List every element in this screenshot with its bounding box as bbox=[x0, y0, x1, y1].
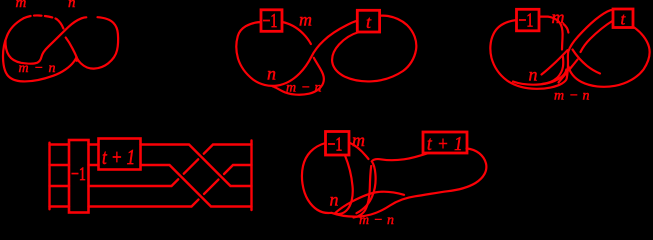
svg-text:−1: −1 bbox=[519, 9, 534, 31]
rung y3 bbox=[50, 185, 70, 187]
left closure bar bbox=[48, 143, 50, 210]
wire SW strand middle piece bbox=[569, 60, 578, 71]
box t bbox=[357, 10, 379, 32]
wire right loop top dash and right side and bottom back to pinch bbox=[77, 17, 119, 68]
rung y4 bbox=[50, 205, 70, 207]
wire m strand resumes below crossing, merges toward inner line bbox=[354, 166, 372, 218]
wire y2 from t+1 to descent to y4 right bbox=[141, 165, 252, 207]
wire m-band right edge resumes SE to oval bottom bbox=[573, 50, 601, 74]
wire m strand from box -1 right edge into crossing (under, gap) bbox=[349, 143, 369, 160]
wire right oval from box t right edge bbox=[569, 27, 650, 87]
svg-text:n: n bbox=[330, 190, 339, 210]
svg-text:t + 1: t + 1 bbox=[427, 133, 463, 156]
svg-text:−1: −1 bbox=[263, 10, 278, 32]
wire left loop sweep CCW from box -1 left, through bottom cusp, east along pill bottom, around cap to box t+1 right bbox=[302, 143, 486, 217]
box t+1 bbox=[423, 132, 467, 153]
wire m-n inner arc bbox=[513, 70, 566, 85]
wire strand a resumes to m-n loop bbox=[273, 58, 324, 95]
svg-text:m: m bbox=[299, 10, 312, 30]
svg-text:−1: −1 bbox=[71, 163, 86, 185]
wire inner bottom arc rising into over-strand diagonal to right loop top bbox=[5, 17, 86, 63]
svg-text:−: − bbox=[569, 89, 578, 104]
wire m-band left edge resumes, curls to m-n inner arc bbox=[542, 57, 563, 85]
svg-text:m: m bbox=[16, 0, 27, 11]
wire strand from box -1 bottom down through cusp, U-turn ENE along inner line bbox=[335, 156, 404, 215]
rung y2 bbox=[50, 164, 70, 166]
wire strand a from box -1 right into crossing (under, gap) bbox=[282, 22, 311, 44]
box -1 bbox=[326, 132, 350, 156]
wire m-band left edge from box stub down (under, gap) bbox=[539, 17, 563, 50]
wire left loop top arc descent into crossing bbox=[57, 19, 64, 29]
wire right oval from box t bottom-left around to bottom-left tip bbox=[332, 16, 416, 82]
svg-text:n: n bbox=[68, 0, 76, 11]
wire left loop sweep, bottom, vertical rise, NE diagonal to box t bbox=[490, 10, 613, 89]
svg-text:n: n bbox=[583, 89, 590, 104]
wire left loop right side rising through crossing into pill top dip to t+1 box bbox=[357, 153, 429, 213]
wire SW strand end to crescent right bbox=[559, 74, 567, 83]
wire y2 stub box-1 to box t+1 bbox=[89, 164, 99, 166]
box -1 bbox=[261, 10, 282, 32]
wire y3 from box-1 to up-diagonal (under, gaps) to y1 right bbox=[89, 179, 179, 186]
box -1 tall bbox=[69, 140, 89, 213]
svg-text:n: n bbox=[387, 213, 394, 227]
box t bbox=[613, 9, 633, 28]
box t+1 bbox=[99, 139, 141, 170]
rung y1 bbox=[50, 143, 70, 145]
wire m-band right edge upper piece (under, gap) bbox=[564, 24, 569, 33]
svg-text:−: − bbox=[374, 213, 383, 227]
wire left loop top dashed arc bbox=[24, 15, 57, 19]
right closure bar bbox=[250, 141, 252, 211]
svg-text:n: n bbox=[267, 64, 276, 84]
wire under-strand from gap to pinch bbox=[66, 38, 77, 61]
svg-text:m: m bbox=[554, 89, 564, 104]
wire y1 stub box-1 to box t+1 bbox=[89, 143, 99, 145]
svg-text:n: n bbox=[49, 61, 56, 76]
wire left loop sweep rising NE into box t bbox=[236, 21, 357, 86]
wire NE diagonal tail down-left toward crescent bbox=[542, 50, 568, 74]
wire left side and outer bottom arc to pinch bbox=[3, 18, 77, 81]
wire y1 from t+1 to big descent to y3 right bbox=[141, 145, 252, 187]
svg-text:−1: −1 bbox=[328, 133, 343, 155]
svg-text:t: t bbox=[621, 10, 627, 29]
box -1 bbox=[517, 9, 540, 31]
wire y4 from box-1 to up-diagonal (under, gaps) to y2 right bbox=[89, 200, 199, 207]
svg-text:t: t bbox=[366, 12, 372, 32]
svg-text:t + 1: t + 1 bbox=[102, 146, 135, 169]
wire SW strand from box t left lower (under, gaps) bbox=[581, 21, 614, 53]
svg-text:n: n bbox=[529, 65, 538, 85]
